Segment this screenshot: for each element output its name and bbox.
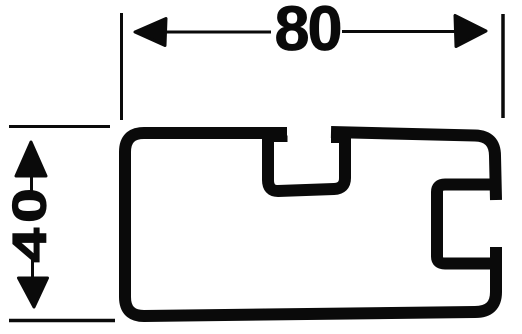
wire right C-channel <box>437 185 496 264</box>
wire profile outline top-right-upperwall <box>331 132 496 200</box>
node arrowhead 80 left <box>135 19 166 46</box>
svg-text:80: 80 <box>274 0 340 64</box>
node arrowhead 80 right <box>455 16 486 47</box>
wire profile outline left-bottom-lowerright <box>125 133 496 316</box>
wire dim line 40 lower shaft <box>31 259 34 282</box>
wire top slot channel <box>268 132 345 191</box>
node left slot lip <box>265 136 288 143</box>
wire dim line 40 upper shaft <box>30 168 33 192</box>
wire extension line left of 80 <box>120 13 123 120</box>
wire extension line bottom of 40 <box>9 319 115 323</box>
wire dim line 80 left segment <box>163 31 271 34</box>
node right slot lip <box>331 135 340 143</box>
node arrowhead 40 down <box>19 278 48 307</box>
wire extension line right of 80 <box>501 14 505 118</box>
node arrowhead 40 up <box>16 142 46 176</box>
wire extension line top of 40 <box>9 125 110 128</box>
svg-text:40: 40 <box>3 183 56 263</box>
wire dim line 80 right segment <box>342 30 458 33</box>
